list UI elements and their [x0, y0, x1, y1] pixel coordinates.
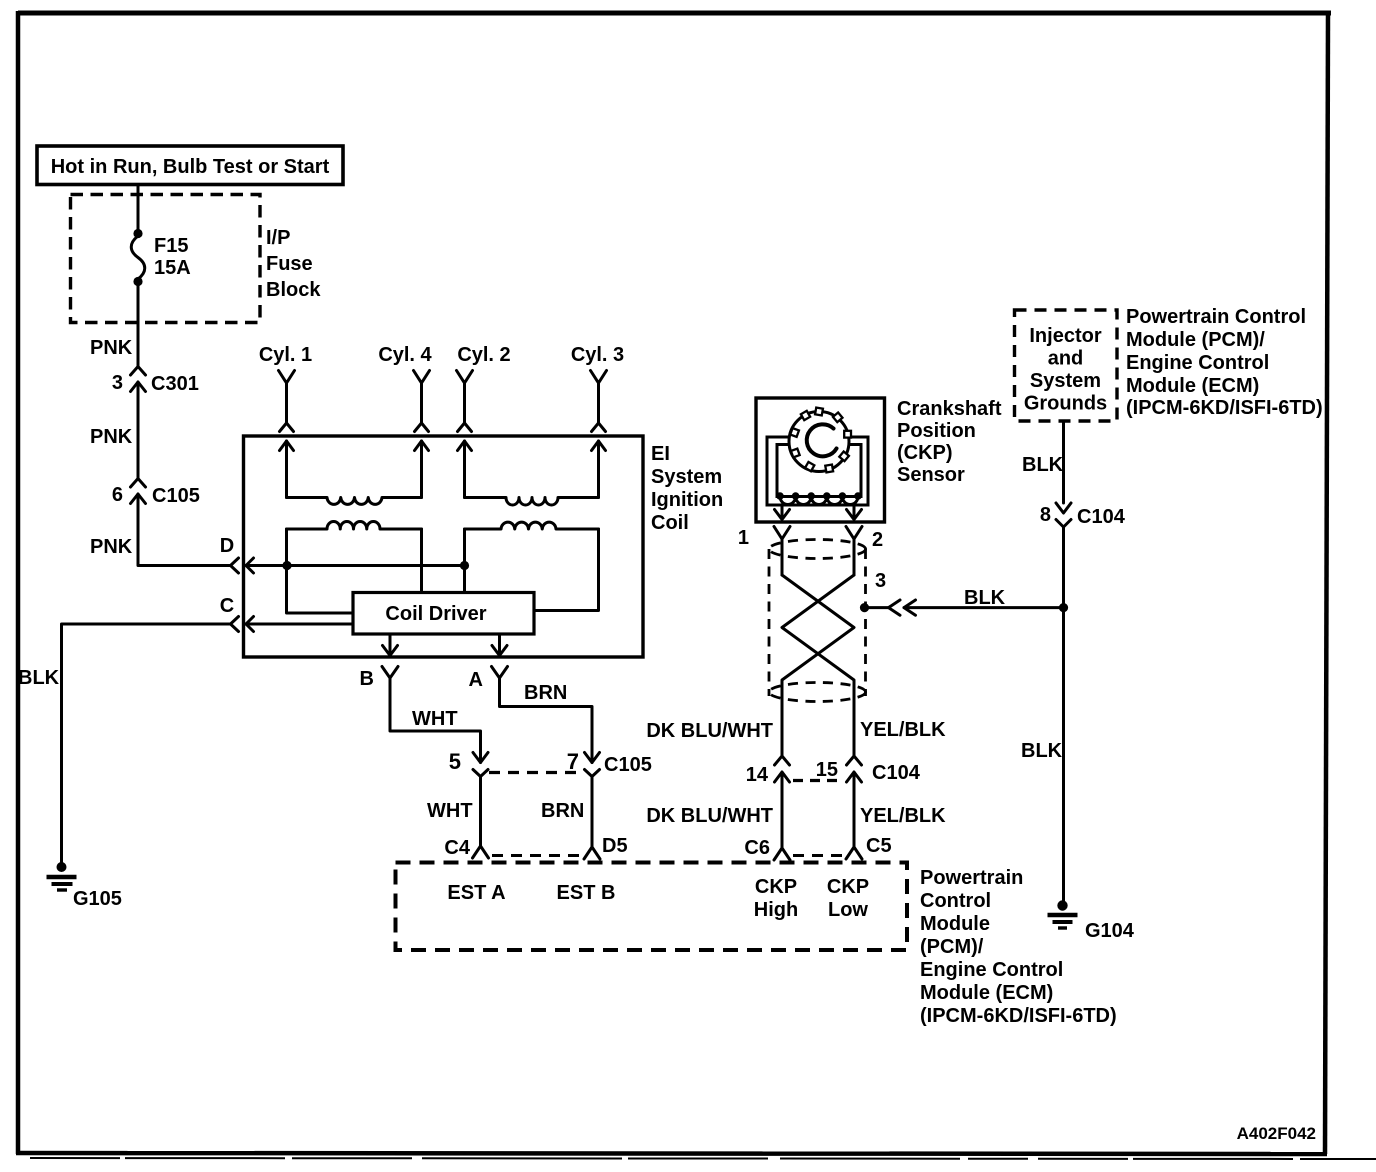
pin C5 fork at PCM edge [846, 835, 892, 859]
svg-text:Block: Block [266, 279, 321, 301]
svg-text:Engine Control: Engine Control [1126, 352, 1269, 374]
connector chevrons at coil box top edge [280, 423, 606, 451]
wire BLK shield branch to twisted pair [904, 606, 1064, 609]
svg-text:Module: Module [920, 913, 990, 935]
svg-text:C105: C105 [604, 754, 652, 776]
connector 7 C105 [567, 749, 652, 777]
wire BRN connector 7 to PCM D5 [591, 777, 594, 848]
svg-text:Cyl. 3: Cyl. 3 [571, 344, 624, 366]
svg-text:BRN: BRN [541, 800, 584, 822]
svg-text:PNK: PNK [90, 426, 133, 448]
svg-text:A: A [469, 669, 483, 691]
primary A right leg into coil driver [420, 529, 423, 593]
wire from Hot box into fuse block [137, 185, 140, 235]
pin 3 shield drain [860, 570, 916, 615]
svg-text:YEL/BLK: YEL/BLK [860, 805, 946, 827]
svg-text:Cyl. 4: Cyl. 4 [378, 344, 432, 366]
dashed link C6-C5 [793, 854, 842, 857]
PCM dashed box [396, 863, 908, 951]
connector C at coil box edge [220, 595, 254, 632]
primary coil B (right) [465, 522, 599, 529]
sensor output arrows [775, 505, 862, 520]
svg-text:D5: D5 [602, 835, 628, 857]
svg-text:5: 5 [449, 749, 461, 774]
primary B left leg into coil driver [463, 529, 466, 593]
svg-text:EI: EI [651, 443, 670, 465]
wire C line to coil driver [246, 623, 353, 626]
svg-text:C105: C105 [152, 485, 200, 507]
connector D at coil box edge [220, 535, 254, 573]
svg-text:Control: Control [920, 890, 991, 912]
wire D feed line [246, 564, 465, 567]
svg-text:Coil Driver: Coil Driver [385, 603, 486, 625]
svg-text:C301: C301 [151, 373, 199, 395]
svg-text:WHT: WHT [427, 800, 473, 822]
svg-text:BLK: BLK [18, 667, 60, 689]
svg-text:C: C [220, 595, 234, 617]
sensor pickup pole frame [767, 437, 868, 505]
label I/P Fuse Block [266, 227, 321, 301]
ground G104 [1048, 900, 1135, 942]
dashed connector link C105 [489, 771, 583, 774]
svg-text:Cyl. 1: Cyl. 1 [259, 344, 312, 366]
pin D5 fork at PCM edge [584, 835, 628, 859]
svg-text:Module (ECM): Module (ECM) [920, 982, 1053, 1004]
svg-text:System: System [1030, 370, 1101, 392]
svg-text:Injector: Injector [1029, 325, 1101, 347]
wire BRN from A to connector 7 [500, 678, 593, 763]
junction dot [1059, 603, 1068, 612]
svg-text:C5: C5 [866, 835, 892, 857]
terminal A fork below box [469, 667, 508, 692]
secondary coil 1/4 [287, 498, 422, 505]
secondary winding wires (verticals from top arrows) [287, 441, 599, 498]
svg-text:CKP: CKP [827, 876, 869, 898]
label Powertrain Control Module (PCM)/ECM (bottom) [920, 867, 1117, 1027]
svg-text:3: 3 [112, 372, 123, 394]
svg-text:Module (PCM)/: Module (PCM)/ [1126, 329, 1265, 351]
svg-text:15: 15 [816, 759, 838, 781]
svg-text:EST A: EST A [447, 882, 505, 904]
svg-text:BLK: BLK [964, 587, 1006, 609]
connector 6 C105 [112, 479, 200, 508]
Coil Driver box [353, 593, 534, 635]
pin C6 fork at PCM edge [744, 837, 790, 860]
svg-text:D: D [220, 535, 234, 557]
svg-text:G104: G104 [1085, 920, 1135, 942]
dashed link C4-D5 [492, 854, 580, 857]
label Powertrain Control Module (PCM)/ECM (top right) [1126, 306, 1323, 419]
svg-text:7: 7 [567, 749, 579, 774]
svg-text:G105: G105 [73, 888, 122, 910]
svg-text:YEL/BLK: YEL/BLK [860, 719, 946, 741]
svg-text:EST B: EST B [557, 882, 616, 904]
power source box "Hot in Run, Bulb Test or Start" [37, 146, 343, 185]
coil driver output arrows B and A [383, 634, 508, 656]
connector 3 C301 [112, 367, 199, 396]
label EI System Ignition Coil [651, 443, 723, 534]
sensor coil winding [776, 492, 862, 504]
svg-text:PNK: PNK [90, 536, 133, 558]
pin C4 fork at PCM edge [444, 837, 488, 859]
svg-text:8: 8 [1040, 504, 1051, 526]
svg-text:Fuse: Fuse [266, 253, 313, 275]
svg-text:High: High [754, 899, 798, 921]
pin 1 fork [738, 527, 790, 576]
svg-text:(PCM)/: (PCM)/ [920, 936, 984, 958]
connector 5 C105 [449, 749, 488, 777]
svg-text:(IPCM-6KD/ISFI-6TD): (IPCM-6KD/ISFI-6TD) [1126, 397, 1323, 419]
junction dot [282, 561, 291, 570]
svg-text:3: 3 [875, 570, 886, 592]
svg-text:Crankshaft: Crankshaft [897, 398, 1002, 420]
shield dashed lines [769, 540, 866, 702]
spark plug terminal forks (Cyl 1,4,2,3) [279, 371, 607, 424]
svg-text:BRN: BRN [524, 682, 567, 704]
svg-text:Sensor: Sensor [897, 464, 965, 486]
svg-text:DK BLU/WHT: DK BLU/WHT [646, 805, 773, 827]
svg-text:A402F042: A402F042 [1237, 1124, 1316, 1143]
primary A left leg down to coil driver feed [287, 529, 354, 613]
svg-text:(IPCM-6KD/ISFI-6TD): (IPCM-6KD/ISFI-6TD) [920, 1005, 1117, 1027]
svg-text:PNK: PNK [90, 337, 133, 359]
svg-text:1: 1 [738, 527, 749, 549]
wire fuse to C301 [137, 282, 140, 367]
svg-text:Module (ECM): Module (ECM) [1126, 375, 1259, 397]
EI System Ignition Coil box [244, 436, 644, 657]
svg-text:(CKP): (CKP) [897, 442, 953, 464]
connector 14 C104 [746, 756, 790, 848]
connector 15 C104 [816, 756, 921, 847]
svg-text:System: System [651, 466, 722, 488]
svg-text:BLK: BLK [1021, 740, 1063, 762]
terminal B fork below box [360, 667, 398, 691]
svg-text:Hot in Run, Bulb Test or Start: Hot in Run, Bulb Test or Start [51, 156, 330, 178]
fuse F15 15A [131, 229, 190, 286]
svg-text:C6: C6 [744, 837, 770, 859]
svg-text:WHT: WHT [412, 708, 458, 730]
svg-text:I/P: I/P [266, 227, 290, 249]
svg-text:F15: F15 [154, 235, 188, 257]
dashed connector link C104 [793, 779, 843, 782]
secondary coil 2/3 [465, 498, 599, 506]
svg-text:Coil: Coil [651, 512, 689, 534]
crankshaft position sensor box [756, 398, 885, 522]
label Crankshaft Position (CKP) Sensor [897, 398, 1002, 486]
pin 2 fork [846, 527, 883, 576]
svg-text:Powertrain Control: Powertrain Control [1126, 306, 1306, 328]
svg-text:Grounds: Grounds [1024, 393, 1107, 415]
wire WHT connector 5 to PCM C4 [479, 777, 482, 847]
svg-text:14: 14 [746, 764, 769, 786]
svg-text:Engine Control: Engine Control [920, 959, 1063, 981]
svg-text:CKP: CKP [755, 876, 797, 898]
sensor reluctor gear wheel [789, 408, 851, 473]
svg-text:C104: C104 [1077, 506, 1126, 528]
wire WHT from B to connector 5 [390, 678, 481, 763]
junction dot [460, 561, 469, 570]
wire C105 down and right to coil terminal D [138, 494, 231, 566]
pin function CKP High [754, 876, 798, 921]
wire BLK from grounds box [1062, 421, 1065, 503]
wire C301 to C105 [137, 382, 140, 478]
svg-text:C104: C104 [872, 762, 921, 784]
primary B right leg to coil driver right side [534, 529, 599, 611]
svg-text:DK BLU/WHT: DK BLU/WHT [646, 720, 773, 742]
injector and system grounds dashed box [1015, 310, 1118, 421]
svg-text:Low: Low [828, 899, 868, 921]
svg-text:Powertrain: Powertrain [920, 867, 1023, 889]
svg-text:B: B [360, 668, 374, 690]
pin function CKP Low [827, 876, 869, 921]
svg-text:BLK: BLK [1022, 454, 1064, 476]
connector 8 C104 [1040, 503, 1126, 528]
svg-text:Ignition: Ignition [651, 489, 723, 511]
svg-text:C4: C4 [444, 837, 470, 859]
svg-text:Position: Position [897, 420, 976, 442]
svg-text:2: 2 [872, 529, 883, 551]
wire BLK down to G104 [1062, 527, 1065, 903]
I/P fuse block dashed box [71, 195, 261, 323]
primary coil A (left) [287, 521, 422, 529]
BLK ground wire from C to G105 [62, 624, 231, 867]
svg-text:Cyl. 2: Cyl. 2 [457, 344, 510, 366]
svg-text:6: 6 [112, 484, 123, 506]
ground G105 [47, 862, 122, 910]
svg-text:15A: 15A [154, 257, 191, 279]
twisted pair wires [782, 575, 854, 756]
svg-text:and: and [1048, 348, 1084, 370]
